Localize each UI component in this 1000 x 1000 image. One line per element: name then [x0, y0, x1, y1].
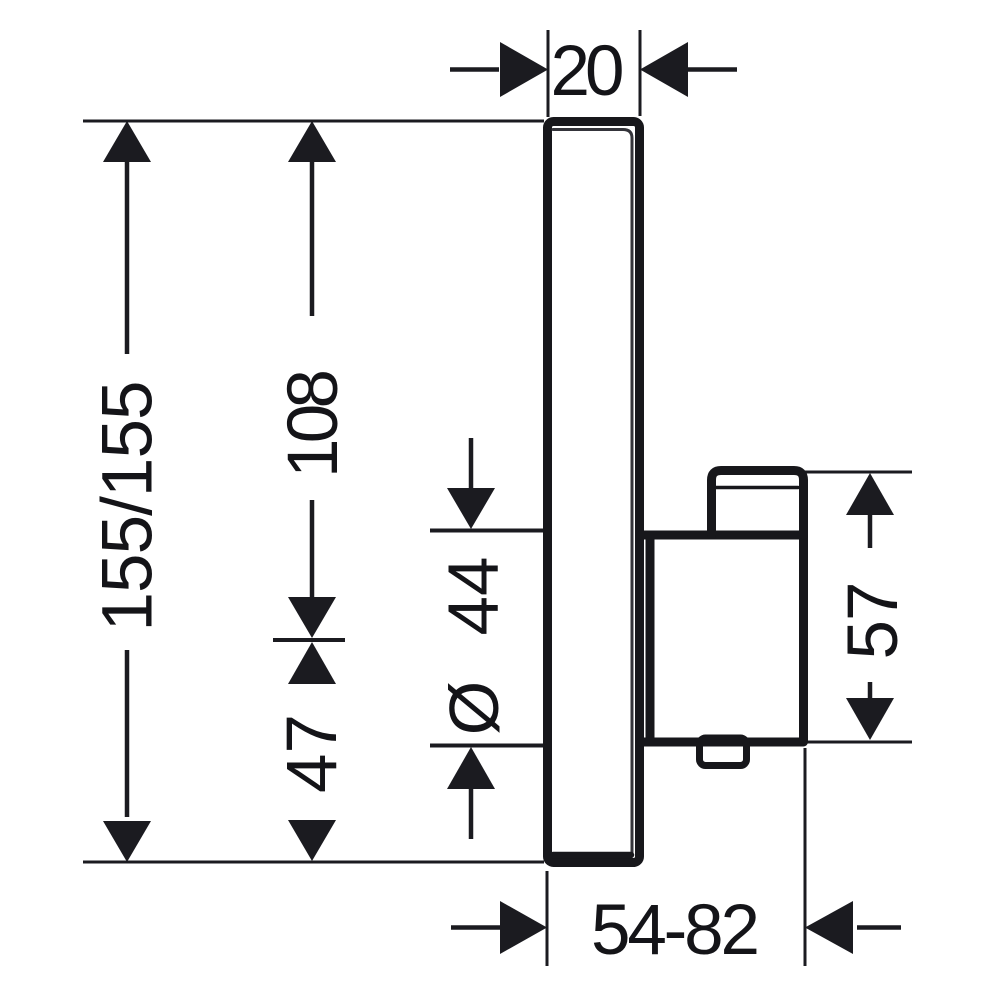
- svg-text:20: 20: [551, 32, 625, 111]
- svg-text:57: 57: [834, 582, 913, 660]
- svg-text:44: 44: [435, 557, 514, 636]
- svg-text:Ø: Ø: [435, 681, 513, 735]
- svg-text:155/155: 155/155: [89, 381, 168, 632]
- svg-text:54-82: 54-82: [591, 891, 760, 970]
- svg-text:108: 108: [274, 369, 353, 478]
- svg-text:47: 47: [273, 714, 352, 793]
